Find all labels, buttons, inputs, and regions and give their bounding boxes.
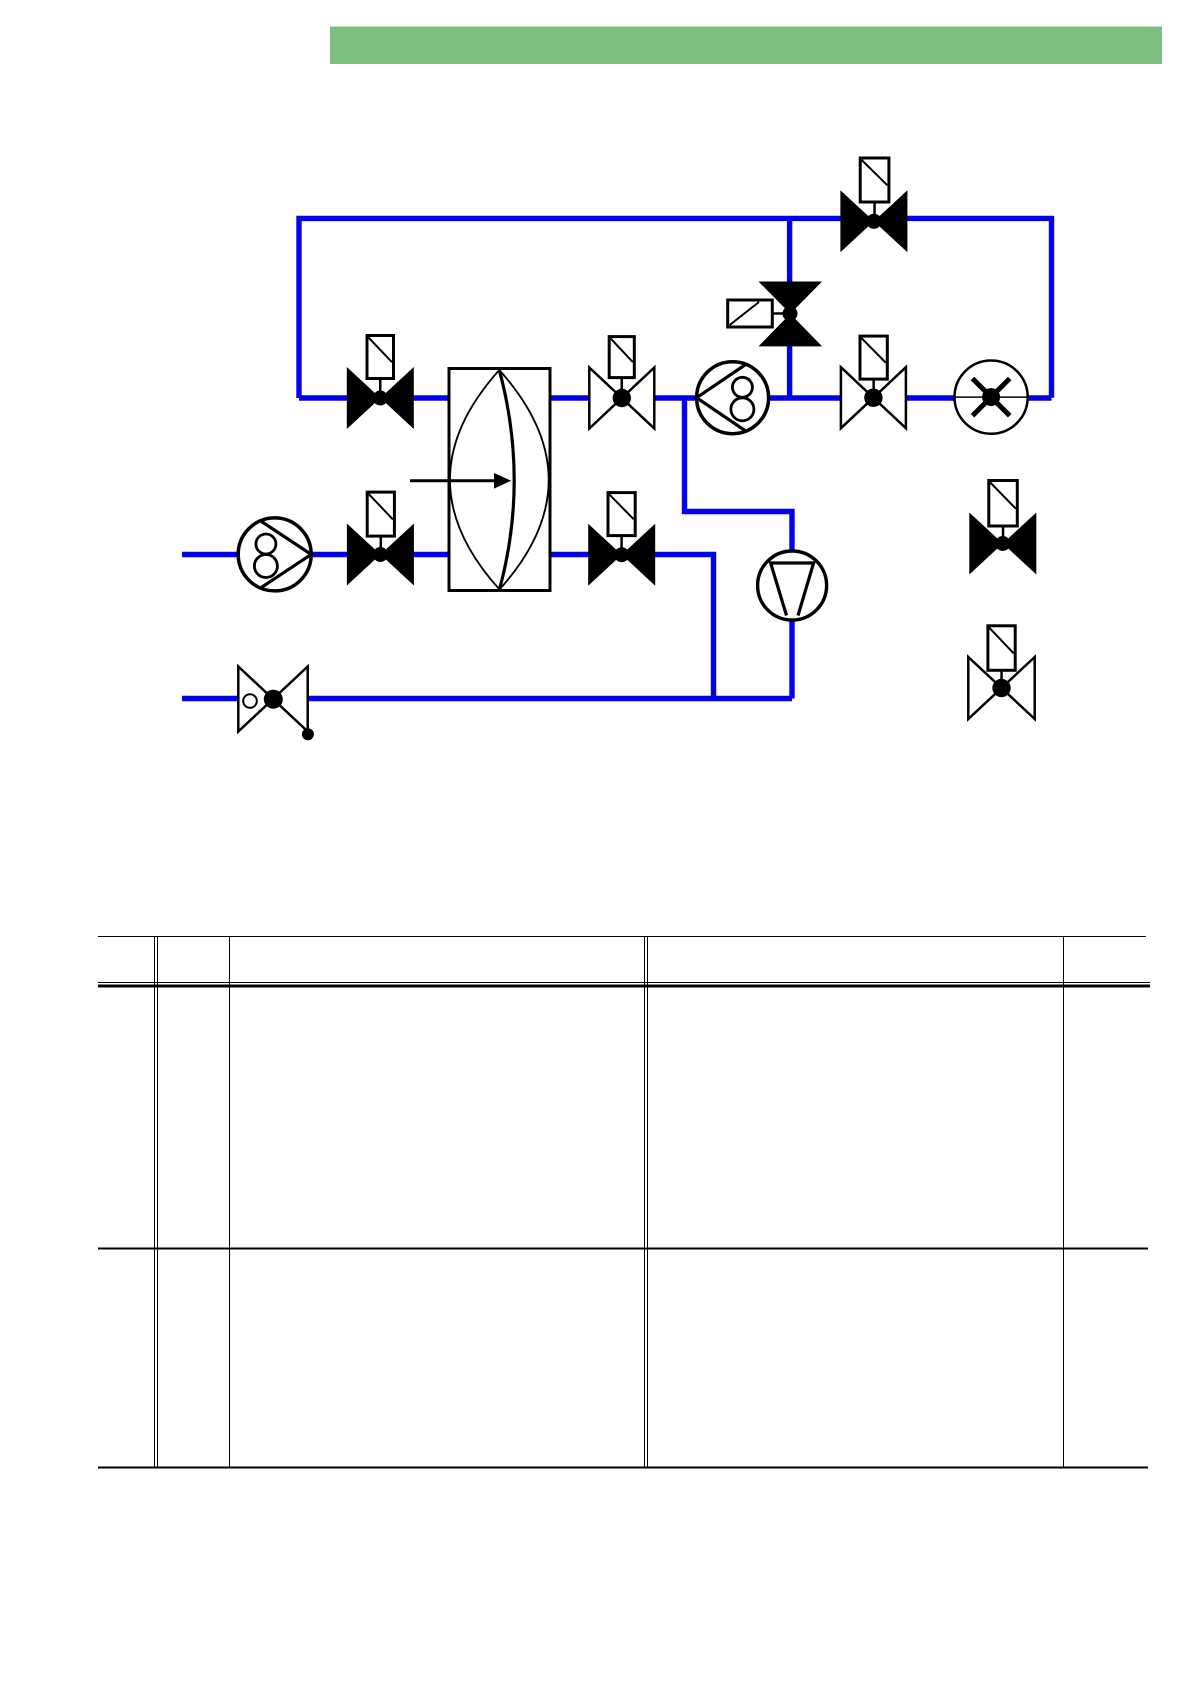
actuator of balancing valve 622 [609, 337, 634, 392]
pipe: lower line left (inlet through pump to exchanger bottom-left) [182, 552, 448, 557]
legend: control valve (white bowtie with dot) [968, 657, 1034, 719]
balancing valve right of exchanger top (white bowtie with dot) [589, 368, 654, 429]
pump P3 vertical (circle with down triangle) [758, 551, 827, 620]
flow limiter (circle with X cross) [955, 361, 1028, 434]
actuator of top bypass valve [860, 158, 889, 215]
pipe: lower line right (exchanger bottom-right to drop) [551, 555, 714, 699]
legend actuator 1 [989, 481, 1018, 538]
pump P1 on lower inlet line (circle, triangle right, 8) [238, 518, 311, 591]
legend actuator 2 [988, 626, 1015, 681]
pipe: step line from junction down to lower pump [685, 398, 793, 699]
pipe: top bypass loop [299, 218, 1052, 398]
table grid [98, 936, 1150, 1468]
shut-off valve on top bypass (black bowtie) [840, 190, 907, 252]
actuator of valve 873 [860, 336, 887, 391]
vertical valve on riser (black bowtie rotated) [759, 282, 823, 347]
actuator of lower-left valve [367, 492, 394, 548]
pump P2 on supply line (circle, triangle left, 8) [697, 362, 769, 434]
motor valve top-left (black bowtie) [347, 367, 414, 429]
control valve 873 (white bowtie with dot) [841, 367, 906, 428]
heat exchanger vessel [449, 369, 550, 591]
motor valve lower-right (black bowtie) [588, 524, 655, 586]
pipe: supply line right (exchanger top-right port to right riser) [551, 395, 1052, 400]
actuator of lower-right valve [608, 493, 635, 548]
flow direction arrow into exchanger [410, 473, 511, 489]
motor valve lower-left (black bowtie) [347, 524, 414, 586]
fill/drain valve on bottom line (white bowtie, dot, hose cap) [238, 667, 314, 741]
green header bar [330, 27, 1162, 65]
pipe: riser from top loop to pump line [787, 218, 792, 398]
pipe: bottom drain line [182, 696, 792, 701]
pipe: supply line left (to heat exchanger top-left port) [299, 395, 448, 400]
legend: motor valve (black bowtie) [969, 513, 1036, 575]
actuator of top-left valve [367, 336, 394, 393]
horizontal actuator of riser valve [728, 300, 784, 327]
